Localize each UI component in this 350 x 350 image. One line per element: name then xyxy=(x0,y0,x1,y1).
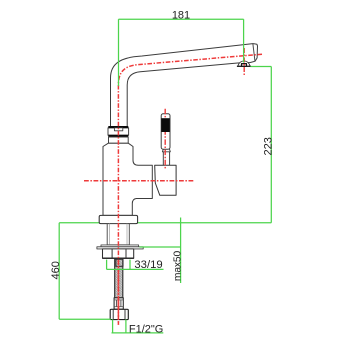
svg-text:F1/2"G: F1/2"G xyxy=(129,323,163,335)
svg-text:223: 223 xyxy=(262,137,274,155)
svg-text:460: 460 xyxy=(50,261,62,279)
svg-text:181: 181 xyxy=(172,10,190,22)
svg-text:max50: max50 xyxy=(173,250,184,281)
svg-text:33/19: 33/19 xyxy=(134,259,162,271)
